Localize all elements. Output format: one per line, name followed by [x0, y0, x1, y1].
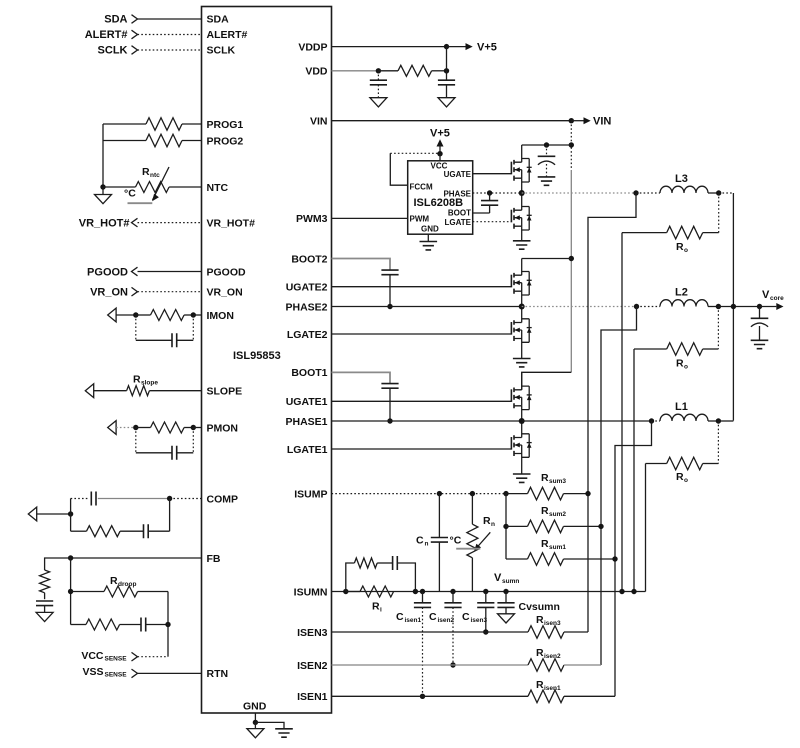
node ISUMP Rsum tap	[503, 491, 508, 496]
pin VDD (right)	[305, 66, 328, 78]
svg-text:R: R	[110, 575, 118, 587]
wire PHASE1	[332, 420, 522, 422]
resistor Rsum1	[506, 538, 615, 565]
svg-text:L2: L2	[675, 287, 688, 299]
node VDDP junction	[444, 44, 449, 49]
resistor Rslope	[94, 374, 202, 396]
node SDA input	[104, 14, 137, 26]
ground Cvsumn	[498, 614, 515, 623]
svg-text:R: R	[676, 241, 684, 253]
wire UGATE1	[332, 400, 512, 402]
svg-text:R: R	[676, 358, 684, 370]
svg-text:V: V	[494, 572, 502, 584]
resistor IMON	[136, 310, 194, 321]
svg-text:VIN: VIN	[593, 116, 611, 128]
pin PHASE2 (right)	[285, 301, 327, 313]
svg-text:LGATE: LGATE	[444, 218, 471, 227]
svg-text:SDA: SDA	[207, 14, 230, 26]
svg-text:R: R	[541, 505, 549, 517]
wire PHASE2	[332, 306, 522, 308]
svg-text:R: R	[536, 679, 544, 691]
pin VR_ON (left)	[207, 287, 243, 299]
capacitor Ri parallel branch	[393, 556, 416, 592]
resistor Rsum3	[506, 472, 588, 500]
resistor Risen2	[528, 647, 601, 671]
ground FET bank2	[513, 359, 531, 367]
ground VDD cap2	[438, 98, 455, 107]
wire SCLK (dotted)	[138, 49, 202, 51]
inductor L3	[636, 173, 719, 193]
wire PHASE (dotted)	[473, 192, 522, 194]
resistor FB RC branch	[71, 619, 141, 630]
IC U2 ISL6208B gate driver body	[408, 161, 473, 234]
node IMON arrow	[108, 308, 116, 322]
svg-text:isen2: isen2	[438, 617, 455, 624]
node PMON junction right	[191, 425, 196, 430]
resistor Risen3	[528, 614, 588, 638]
resistor PROG1	[103, 118, 202, 131]
node Rsum1 phase1 junction	[612, 556, 617, 561]
node VCC_SENSE input	[81, 650, 137, 662]
wire VIN vertical rail	[570, 121, 572, 373]
wire VIN feed bank3	[522, 144, 572, 146]
node V+5 arrow 6208B	[430, 128, 450, 154]
svg-text:C: C	[416, 535, 424, 547]
svg-text:SENSE: SENSE	[105, 672, 128, 679]
svg-text:PROG2: PROG2	[207, 135, 244, 147]
ground VDD cap1	[370, 98, 387, 107]
svg-text:°C: °C	[124, 188, 136, 200]
svg-text:R: R	[541, 472, 549, 484]
wire VR_ON (dotted)	[138, 291, 202, 293]
pin ALERT# (left)	[207, 29, 248, 41]
node PGOOD output	[87, 266, 137, 278]
resistor Rsum2	[506, 505, 601, 533]
wire PWM3 to driver	[332, 217, 408, 219]
svg-text:PROG1: PROG1	[207, 119, 244, 131]
svg-text:BOOT1: BOOT1	[291, 367, 327, 379]
capacitor FB divider	[36, 601, 53, 612]
svg-text:ISEN2: ISEN2	[297, 660, 328, 672]
node IMON junction right	[191, 312, 196, 317]
resistor VDD filter	[378, 65, 446, 76]
wire VR_HOT# (dotted)	[138, 222, 202, 224]
node input cap junction	[544, 142, 549, 147]
node VR_HOT# output	[79, 217, 138, 229]
node Cisen1 tap	[420, 589, 425, 594]
wire LGATE (dotted)	[473, 221, 512, 223]
svg-text:L1: L1	[675, 401, 688, 413]
svg-text:ISUMN: ISUMN	[294, 586, 328, 598]
wire VCC_SENSE vertical	[167, 592, 169, 657]
svg-text:V+5: V+5	[430, 128, 450, 140]
resistor Ro2	[634, 307, 718, 371]
capacitor boot1	[381, 384, 398, 421]
pin FB (left)	[207, 553, 221, 565]
svg-text:PHASE2: PHASE2	[285, 301, 327, 313]
svg-text:PHASE1: PHASE1	[285, 416, 327, 428]
ground input cap	[538, 177, 556, 185]
capacitor IMON parallel	[136, 315, 194, 347]
pin NTC (left)	[207, 182, 229, 194]
wire phase3 jog down	[588, 193, 636, 632]
node Rsum3 phase3 junction	[585, 491, 590, 496]
ground 6208B GND	[420, 234, 438, 250]
svg-text:VSS: VSS	[82, 666, 103, 678]
svg-text:PGOOD: PGOOD	[87, 266, 128, 278]
node ISUMN Ri tap	[343, 589, 348, 594]
capacitor Cvsumn	[497, 592, 560, 614]
svg-text:R: R	[372, 601, 380, 613]
node NTC junction	[100, 184, 105, 189]
node VIN junction	[569, 118, 574, 123]
pin UGATE1 (right)	[286, 396, 328, 408]
wire L1 output to Vcore vertical	[718, 420, 733, 422]
node VDD junction right	[444, 68, 449, 73]
node phase1 FET junction	[519, 418, 525, 424]
wire IMON to pin	[193, 314, 201, 316]
node Rsum2 tap	[503, 524, 508, 529]
node FB RC junction	[165, 622, 170, 627]
svg-text:PWM3: PWM3	[296, 213, 328, 225]
wire VIN feed bank2	[522, 258, 572, 260]
node COMP junction left	[68, 511, 73, 516]
pin LGATE (6208B)	[444, 218, 471, 227]
node Cisen1 to ISEN1	[420, 694, 425, 699]
node PMON arrow	[108, 421, 116, 435]
svg-text:C: C	[462, 611, 470, 623]
svg-text:VR_ON: VR_ON	[207, 287, 243, 299]
pin VIN (right)	[310, 116, 328, 128]
node Cisen3 tap	[483, 589, 488, 594]
capacitor VDD cap1	[370, 71, 387, 98]
resistor Rn thermistor	[450, 494, 496, 592]
pin PROG2 (left)	[207, 135, 244, 147]
resistor COMP bottom branch	[71, 526, 144, 537]
node VIN feed2 junction	[569, 256, 574, 261]
wire ISEN3	[332, 631, 529, 633]
svg-text:ISEN1: ISEN1	[297, 691, 328, 703]
node Vcore arrow	[760, 289, 785, 310]
wire VCC stub	[439, 154, 441, 161]
node VIN feed3 junction	[569, 142, 574, 147]
wire PMON left (dotted)	[116, 427, 136, 429]
resistor Ro3	[622, 193, 719, 254]
transistor Q3 upper FET bank2	[511, 259, 531, 307]
svg-text:R: R	[536, 614, 544, 626]
node FB junction	[68, 555, 73, 560]
svg-text:SDA: SDA	[104, 14, 127, 26]
node L2 input junction	[634, 304, 639, 309]
svg-text:RTN: RTN	[207, 668, 229, 680]
resistor Rdroop	[71, 575, 168, 597]
svg-text:Cvsumn: Cvsumn	[519, 601, 560, 613]
capacitor COMP top branch	[71, 492, 170, 506]
svg-text:ISL95853: ISL95853	[233, 350, 281, 362]
pin BOOT2 (right)	[291, 253, 327, 265]
svg-text:VDDP: VDDP	[298, 41, 327, 53]
pin PGOOD (left)	[207, 266, 247, 278]
node COMP arrow	[28, 507, 36, 521]
svg-text:SCLK: SCLK	[98, 45, 128, 57]
ground Vcore cap	[751, 340, 769, 348]
wire L3 output to Vcore rail	[719, 192, 734, 194]
wire Ro2 sense vertical	[633, 349, 635, 592]
transistor Q4 lower FET bank2	[511, 307, 531, 359]
resistor PROG2	[103, 134, 202, 147]
svg-text:VR_HOT#: VR_HOT#	[79, 217, 130, 229]
wire V+5 to VDD	[446, 47, 448, 71]
svg-text:R: R	[483, 515, 491, 527]
wire phase2 to L2 (gray dotted)	[522, 306, 637, 308]
pin RTN (left)	[207, 668, 229, 680]
pin PHASE (6208B)	[443, 189, 471, 198]
svg-text:isen1: isen1	[405, 617, 422, 624]
inductor L2	[637, 287, 719, 307]
wire ALERT# (dotted)	[138, 34, 202, 36]
wire VDD rail	[332, 70, 379, 72]
svg-text:PHASE: PHASE	[443, 189, 471, 198]
wire PMON to pin	[193, 427, 201, 429]
svg-text:ISL6208B: ISL6208B	[414, 197, 464, 209]
pin BOOT1 (right)	[291, 367, 327, 379]
wire Rsum bus vertical	[505, 494, 507, 559]
svg-text:IMON: IMON	[207, 310, 234, 322]
capacitor input bank3	[538, 145, 556, 177]
wire FB to divider	[45, 558, 71, 570]
svg-text:COMP: COMP	[207, 493, 239, 505]
wire COMP left vertical	[70, 499, 72, 532]
resistor FB divider (vertical)	[40, 570, 50, 599]
node Cisen2 tap	[450, 589, 455, 594]
pin SCLK (left)	[207, 45, 236, 57]
wire BOOT1	[332, 372, 391, 383]
svg-text:SLOPE: SLOPE	[207, 386, 243, 398]
pin ISUMN (right)	[294, 586, 328, 598]
svg-text:C: C	[429, 611, 437, 623]
pin GND (6208B)	[421, 224, 439, 233]
node Vsumn	[494, 572, 519, 594]
node Rsum2 phase2 junction	[598, 524, 603, 529]
svg-text:sum3: sum3	[549, 478, 566, 485]
pin COMP (left)	[207, 493, 239, 505]
svg-text:ALERT#: ALERT#	[207, 29, 248, 41]
pin PMON (left)	[207, 422, 239, 434]
wire PGOOD	[138, 271, 202, 273]
node VCC junction	[437, 151, 442, 156]
pin PHASE1 (right)	[285, 416, 327, 428]
svg-text:°C: °C	[450, 535, 462, 547]
node SCLK input	[98, 45, 138, 57]
svg-text:o: o	[684, 247, 688, 254]
node Cisen2 to ISEN2	[450, 662, 455, 667]
node VDD junction left	[376, 68, 381, 73]
pin BOOT (6208B)	[448, 208, 471, 217]
wire SDA	[138, 18, 202, 20]
svg-text:PGOOD: PGOOD	[207, 266, 247, 278]
wire phase2 jog down	[601, 307, 637, 666]
svg-text:GND: GND	[421, 224, 439, 233]
pin VDDP (right)	[298, 41, 327, 53]
svg-text:droop: droop	[118, 581, 136, 588]
pin PWM (6208B)	[410, 214, 430, 223]
resistor Ro1	[646, 421, 719, 484]
svg-text:VR_ON: VR_ON	[90, 287, 128, 299]
pin LGATE1 (right)	[287, 444, 328, 456]
pin FCCM (6208B)	[410, 182, 433, 191]
node PMON junction left	[133, 425, 138, 430]
capacitor VDD cap2	[438, 71, 455, 98]
svg-text:o: o	[684, 477, 688, 484]
transistor Q6 lower FET bank1	[511, 421, 531, 474]
wire Ro3 sense vertical	[621, 233, 623, 592]
IC U1 ISL95853 controller body	[202, 7, 332, 714]
pin SDA (left)	[207, 14, 230, 26]
svg-text:VR_HOT#: VR_HOT#	[207, 217, 256, 229]
wire LGATE2	[332, 333, 512, 335]
node GND junction	[253, 720, 258, 725]
svg-text:PWM: PWM	[410, 214, 430, 223]
node SLOPE arrow	[85, 384, 93, 398]
svg-text:ntc: ntc	[150, 172, 160, 179]
wire FB vertical	[70, 558, 72, 625]
wire FB from pin	[71, 557, 202, 559]
svg-text:L3: L3	[675, 173, 688, 185]
svg-text:isen2: isen2	[544, 653, 561, 660]
node ALERT# input	[85, 29, 138, 41]
wire LGATE1	[332, 448, 512, 450]
svg-text:i: i	[380, 607, 382, 614]
svg-text:R: R	[536, 647, 544, 659]
svg-text:SCLK: SCLK	[207, 45, 236, 57]
svg-text:FCCM: FCCM	[410, 182, 433, 191]
resistor PMON	[136, 422, 194, 433]
svg-text:UGATE2: UGATE2	[286, 282, 328, 294]
capacitor boot 6208B	[481, 193, 498, 213]
wire FCCM loop	[390, 153, 440, 185]
svg-text:VIN: VIN	[310, 116, 328, 128]
node V+5 arrow VDDP	[447, 42, 497, 54]
wire VSS_SENSE to RTN	[138, 672, 202, 674]
wire phase1 jog down	[615, 421, 652, 696]
node Rdroop junction	[68, 589, 73, 594]
svg-text:V+5: V+5	[477, 42, 497, 54]
node ISUMN Ro3 junction	[619, 589, 624, 594]
wire COMP to pin (dotted)	[170, 498, 202, 500]
svg-text:n: n	[425, 541, 429, 548]
pin GND (bottom)	[243, 701, 267, 713]
ground NTC	[95, 187, 112, 204]
pin VCC (6208B)	[431, 161, 448, 170]
capacitor PMON parallel	[136, 428, 194, 460]
node Vcore rail junction	[731, 304, 736, 309]
wire IMON left	[116, 314, 136, 316]
node VSS_SENSE input	[82, 666, 137, 678]
svg-text:isen3: isen3	[544, 620, 561, 627]
node L1 input junction	[649, 418, 654, 423]
node phase2 FET junction	[519, 304, 525, 310]
svg-text:isen3: isen3	[471, 617, 488, 624]
wire Vcore rail	[718, 306, 759, 308]
pin PWM3 (right)	[296, 213, 328, 225]
wire COMP arrow line	[37, 513, 71, 515]
capacitor Cn	[416, 494, 448, 592]
wire ISUMN	[332, 591, 646, 593]
svg-text:BOOT2: BOOT2	[291, 253, 327, 265]
svg-text:o: o	[684, 364, 688, 371]
svg-text:PMON: PMON	[207, 422, 239, 434]
pin IMON (left)	[207, 310, 234, 322]
node ISUMN Ro2 junction	[631, 589, 636, 594]
node Vcore output junction	[757, 304, 762, 309]
capacitor Cisen3	[462, 592, 494, 633]
wire VCC_SENSE (dotted)	[138, 656, 169, 658]
node L2 output junction	[716, 304, 721, 309]
svg-text:FB: FB	[207, 553, 221, 565]
wire ISEN2	[332, 664, 529, 666]
ground FET bank1	[513, 474, 531, 482]
node IMON junction left	[133, 312, 138, 317]
ground FB divider	[36, 612, 53, 621]
ground FET bank3	[513, 241, 531, 249]
svg-text:isen1: isen1	[544, 685, 561, 692]
svg-text:R: R	[142, 166, 150, 178]
svg-text:LGATE2: LGATE2	[287, 329, 328, 341]
transistor Q5 upper FET bank1	[511, 372, 531, 421]
svg-text:R: R	[541, 538, 549, 550]
node L1 output junction	[716, 418, 721, 423]
node ISUMP Cn tap	[437, 491, 442, 496]
capacitor FB RC branch	[141, 618, 168, 632]
node VIN arrow	[571, 116, 611, 128]
pin ISEN2 (right)	[297, 660, 328, 672]
svg-text:R: R	[676, 471, 684, 483]
pin ISEN1 (right)	[297, 691, 328, 703]
capacitor boot2	[381, 270, 398, 306]
ground GND triangle	[247, 722, 264, 737]
resistor Rntc thermistor	[103, 166, 202, 203]
wire BOOT 6208B	[473, 212, 490, 214]
pin UGATE2 (right)	[286, 282, 328, 294]
capacitor Cisen2	[429, 592, 462, 666]
svg-text:NTC: NTC	[207, 182, 229, 194]
pin LGATE2 (right)	[287, 329, 328, 341]
wire Vcore right vertical	[732, 193, 734, 421]
capacitor Cisen1	[396, 592, 431, 697]
wire PROG bus vertical	[102, 124, 104, 187]
svg-text:V: V	[762, 289, 770, 301]
node VR_ON input	[90, 287, 137, 299]
node Cisen3 to ISEN3	[483, 629, 488, 634]
wire ISUMP (dotted)	[332, 493, 507, 495]
svg-text:core: core	[770, 295, 784, 302]
wire VDDP rail	[332, 46, 447, 48]
svg-text:slope: slope	[141, 380, 158, 387]
svg-text:n: n	[491, 521, 495, 528]
pin UGATE (6208B)	[444, 170, 472, 179]
node L3 output junction	[716, 190, 721, 195]
wire VIN rail	[332, 120, 572, 122]
svg-text:ALERT#: ALERT#	[85, 29, 128, 41]
svg-text:UGATE: UGATE	[444, 170, 472, 179]
resistor Ri	[346, 586, 394, 614]
wire BOOT2	[332, 259, 391, 271]
resistor Ri parallel branch	[346, 558, 393, 592]
node boot1 phase tap	[387, 418, 392, 423]
svg-text:sum1: sum1	[549, 544, 566, 551]
pin SLOPE (left)	[207, 386, 243, 398]
svg-text:sumn: sumn	[502, 578, 519, 585]
